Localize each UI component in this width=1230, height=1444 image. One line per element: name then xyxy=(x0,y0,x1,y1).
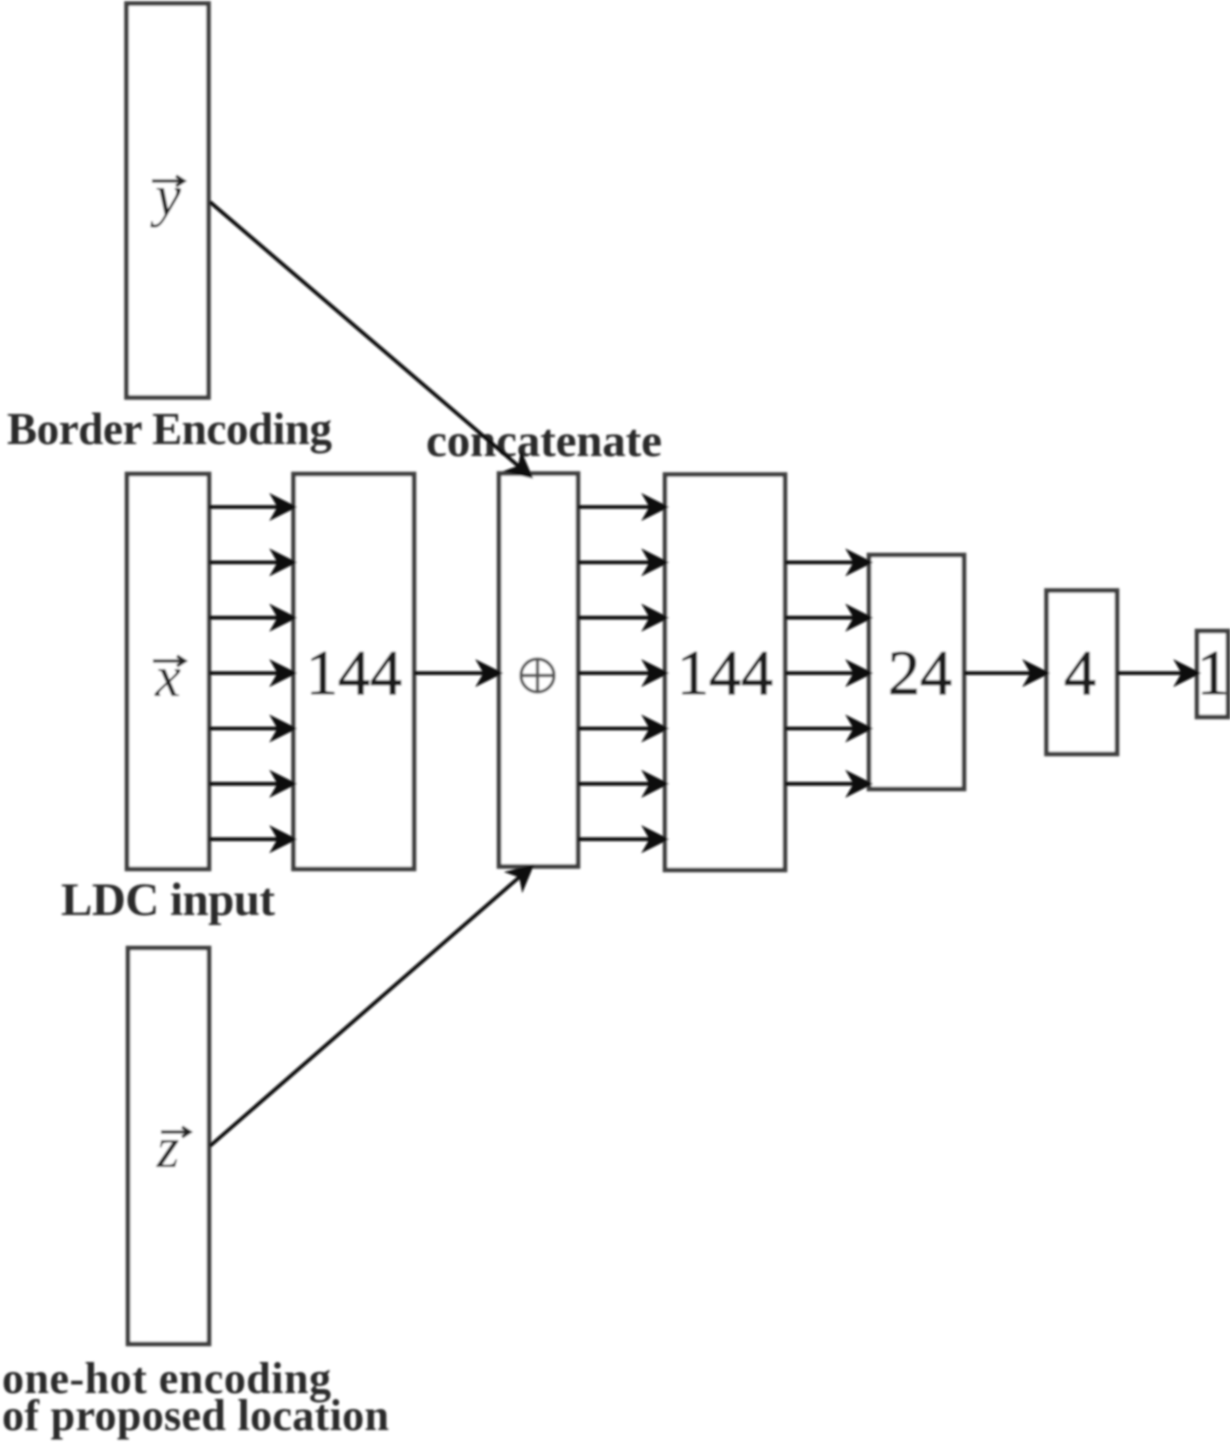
svg-text:4: 4 xyxy=(1064,637,1096,708)
output layer 1 box xyxy=(1197,631,1228,717)
svg-text:of proposed location: of proposed location xyxy=(2,1391,389,1440)
node z input vector box xyxy=(128,948,209,1344)
arrow 144 to oplus xyxy=(414,664,499,683)
oplus symbol xyxy=(521,659,554,692)
node z vector label xyxy=(161,1127,190,1137)
svg-text:concatenate: concatenate xyxy=(426,415,662,467)
svg-text:x: x xyxy=(154,644,181,709)
concatenate oplus box xyxy=(499,474,578,867)
hidden layer 4 box xyxy=(1047,591,1118,755)
svg-text:144: 144 xyxy=(306,637,402,708)
hidden layer 24 box xyxy=(869,555,964,789)
node x input vector box xyxy=(127,474,209,869)
svg-text:y: y xyxy=(150,163,181,228)
svg-text:LDC input: LDC input xyxy=(61,874,275,926)
hidden layer 144 box (second) xyxy=(665,475,785,871)
diagonal arrow z to concatenate xyxy=(210,867,531,1146)
arrow 24 to 4 xyxy=(964,664,1046,683)
svg-text:144: 144 xyxy=(677,637,773,708)
arrow 4 to 1 xyxy=(1117,664,1197,683)
arrows x box to 144 (7) xyxy=(209,498,293,849)
arrows 144 to 24 (5) xyxy=(785,553,869,793)
diagonal arrow y to concatenate xyxy=(210,202,530,476)
svg-text:Border Encoding: Border Encoding xyxy=(7,404,333,454)
hidden layer 144 box (first) xyxy=(294,474,415,869)
arrows oplus to 144 (7) xyxy=(578,498,665,849)
node y input vector box xyxy=(127,4,209,398)
node y vector label xyxy=(152,176,184,186)
svg-text:1: 1 xyxy=(1197,637,1229,708)
node x vector label xyxy=(153,656,185,666)
svg-text:24: 24 xyxy=(888,637,952,708)
svg-text:z: z xyxy=(156,1115,180,1180)
